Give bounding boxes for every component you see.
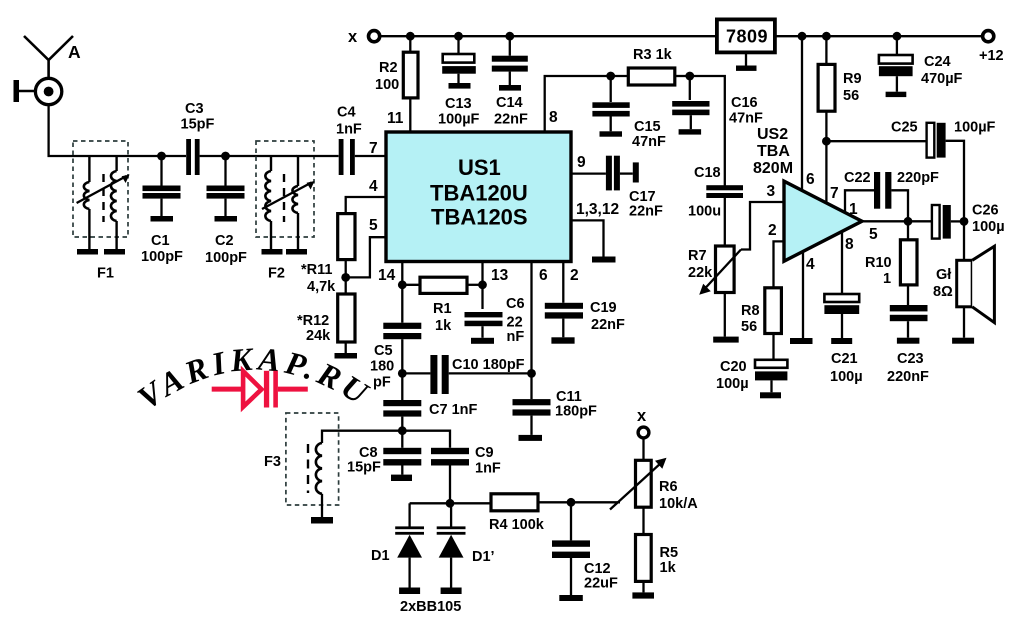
svg-text:+12: +12 [979,48,1004,64]
varicap diode D1 [395,503,424,587]
capacitor C7 [383,400,421,448]
svg-text:220nF: 220nF [887,369,929,385]
capacitor C26 (electrolytic, series) [932,205,964,239]
svg-text:TBA120S: TBA120S [431,205,528,230]
svg-text:US2: US2 [757,126,788,143]
filter F3 [286,413,402,517]
svg-text:C15: C15 [634,119,661,135]
svg-text:C16: C16 [731,95,758,111]
US2 pin 1 wire to C22 [845,190,874,212]
node pin6/C10 junction [527,369,536,378]
svg-text:470µF: 470µF [921,71,963,87]
ground C19 [551,337,574,343]
svg-text:C24: C24 [924,54,951,70]
wire antenna to input line [49,105,74,156]
speaker Gl [957,246,995,338]
svg-text:C13: C13 [445,96,472,112]
svg-text:56: 56 [843,88,859,104]
wire R12 to ground [345,342,347,353]
svg-text:8: 8 [549,109,558,126]
svg-text:R8: R8 [741,303,760,319]
svg-text:R7: R7 [688,248,707,264]
wire US1 pin 9 to C17 [571,172,606,174]
svg-text:R10: R10 [865,255,892,271]
capacitor C9 [431,448,469,504]
svg-text:D1’: D1’ [472,549,495,565]
svg-text:5: 5 [869,226,878,243]
resistor R4 [491,494,571,511]
wire US1 pin 8 up [545,76,611,132]
ground pins 1,3,12 [592,257,616,263]
svg-text:F3: F3 [264,454,281,470]
wire R4 node to R6 arrow [571,501,620,503]
svg-text:C10 180pF: C10 180pF [452,357,525,373]
capacitor C23 [890,305,928,338]
capacitor C24 (electrolytic) [879,36,913,91]
op-amp US1 TBA120U/TBA120S [386,132,571,262]
svg-text:15pF: 15pF [181,117,215,133]
svg-text:A: A [68,42,81,62]
node rail/pin6 junction [798,32,807,41]
wire input line to C3 [74,155,186,157]
svg-text:C14: C14 [496,95,523,111]
wire F2 to C4 [297,155,339,157]
capacitor C19 [545,303,583,338]
ground F2 right [286,249,307,255]
resistor R5 [636,535,652,593]
wire C7 node to C9 [402,431,450,448]
node R9/C25/pin7 junction [822,137,831,146]
svg-text:100µ: 100µ [972,219,1005,235]
watermark VARIKAP.RU text [131,341,377,417]
wire junction to C25 [826,140,927,142]
wire US2 output [862,220,931,222]
filter F2 [256,141,315,249]
svg-text:3: 3 [767,183,776,200]
wire C2 to F2 [226,155,298,157]
svg-text:100u: 100u [688,204,721,220]
svg-text:D1: D1 [371,548,390,564]
wire junction to US2 pin 7 [825,141,827,203]
antenna connector socket [14,78,62,104]
svg-text:C5: C5 [374,343,393,359]
capacitor C13 (electrolytic) [442,36,476,83]
svg-text:TBA: TBA [757,143,790,160]
svg-text:R3 1k: R3 1k [633,47,673,63]
resistor R11 [338,214,355,260]
svg-text:100µ: 100µ [716,376,749,392]
svg-text:100pF: 100pF [205,250,247,266]
svg-text:C26: C26 [972,203,999,219]
svg-text:C25: C25 [891,120,918,136]
svg-text:7: 7 [369,140,378,157]
svg-text:9: 9 [577,154,586,171]
US2 pin 2 wire to R8 [774,241,785,287]
capacitor C6 [465,312,503,338]
svg-text:C18: C18 [694,165,721,181]
potentiometer R7 [699,246,741,337]
svg-text:C3: C3 [185,101,204,117]
svg-text:Gł: Gł [936,267,951,283]
resistor R12 [338,294,355,342]
wire junction to speaker [963,221,965,260]
ground R5 [632,592,654,598]
capacitor C10 (series) [402,355,531,394]
capacitor C14 [492,36,528,85]
capacitor C12 [552,502,590,595]
svg-text:R2: R2 [379,60,398,76]
node C1 junction [157,152,166,161]
node C5/C10/C7 junction [398,369,407,378]
svg-text:15pF: 15pF [347,460,381,476]
wire R7 wiper to US2 pin 3 [741,202,784,250]
ground R12 [335,353,358,359]
svg-text:C23: C23 [897,351,924,367]
svg-text:*R12: *R12 [297,313,329,329]
capacitor C16 [672,76,709,129]
capacitor C4 (series) [339,139,386,175]
wire C9 to D1 node [410,502,491,504]
resistor R10 [900,221,917,305]
resistor R8 [765,288,782,360]
wire US1 pin 2 down [562,262,564,303]
svg-text:100µF: 100µF [954,120,996,136]
svg-text:100µ: 100µ [830,369,863,385]
svg-text:US1: US1 [458,155,501,180]
capacitor C5 [383,323,421,400]
svg-text:22nF: 22nF [591,317,625,333]
ground 7809 [736,66,757,71]
wire rail to US2 pin 6 [801,36,803,191]
svg-text:1: 1 [849,201,858,218]
ground C20 [760,392,781,398]
capacitor C21 (electrolytic) [824,294,859,338]
ground C13 [449,83,471,89]
wire US1 pins 1,3,12 to ground [571,220,604,256]
node rail/C24 junction [893,32,902,41]
potentiometer R6 [610,458,667,510]
svg-text:C2: C2 [215,233,234,249]
ground F3 [311,517,333,524]
capacitor C18 [706,185,743,246]
svg-text:F2: F2 [268,266,285,282]
svg-text:C20: C20 [720,359,747,375]
ground C21 [831,338,852,344]
ground C24 [886,92,907,97]
svg-text:24k: 24k [306,328,331,344]
svg-text:nF: nF [507,329,525,345]
ground C2 [215,216,238,222]
svg-text:4: 4 [806,256,815,273]
svg-text:2xBB105: 2xBB105 [400,599,461,615]
node R11/R12 junction [341,273,350,282]
node +12 terminal [983,31,994,42]
filter F1 [73,141,130,249]
ground C1 [151,216,174,222]
ground C8 [391,475,412,481]
svg-text:180pF: 180pF [555,404,597,420]
resistor R3 [611,68,690,85]
capacitor C11 [513,399,551,435]
ground C15 [600,131,623,136]
regulator 7809 [717,19,775,65]
svg-text:C1: C1 [151,233,170,249]
op-amp US2 triangle [784,181,862,261]
svg-text:C21: C21 [831,351,858,367]
svg-text:TBA120U: TBA120U [430,181,528,206]
svg-text:10k/A: 10k/A [659,496,698,512]
svg-text:2: 2 [768,222,777,239]
watermark varicap diode symbol (red) [212,371,308,408]
wire US1 pin 13 down [481,262,483,310]
node R3/C15 junction [606,72,615,81]
svg-text:C6: C6 [506,296,525,312]
ground speaker [952,338,974,344]
node pin14/R1 junction [398,280,407,289]
svg-text:C19: C19 [590,300,617,316]
capacitor C8 [383,448,421,475]
node rail/C14 junction [505,32,514,41]
ground C6 [471,338,494,344]
svg-text:4,7k: 4,7k [307,279,336,295]
svg-text:820M: 820M [753,160,793,177]
wire US1 pin 5 to R11/R12 node [346,237,386,277]
ground C14 [499,85,521,91]
US2 pin 4 wire to ground [802,252,804,339]
node C2 junction [221,152,230,161]
node C26/speaker junction [960,217,969,226]
wire US1 pin 6 down to C11 [530,262,532,400]
node C9/D1' junction [446,499,455,508]
ground F1 left [77,249,98,255]
svg-text:2: 2 [570,267,579,284]
wire US1 pin 14 down [401,262,403,323]
svg-text:11: 11 [387,110,404,127]
wire R6 to R5 [642,507,644,534]
svg-text:1nF: 1nF [336,122,362,138]
wire X terminal to R6 [642,438,644,460]
svg-text:6: 6 [806,171,815,188]
resistor R1 [402,277,482,293]
svg-text:1nF: 1nF [475,461,501,477]
svg-text:220pF: 220pF [897,170,939,186]
node rail/R2 junction [406,32,415,41]
svg-text:6: 6 [539,267,548,284]
node pin13/R1 junction [478,280,487,289]
svg-text:47nF: 47nF [632,134,666,150]
svg-text:22k: 22k [688,265,713,281]
ground C11 [519,435,543,441]
svg-text:*R11: *R11 [301,262,332,278]
svg-text:100µF: 100µF [438,112,480,128]
wire R11 to R12 [345,260,347,294]
node X tuning terminal [638,427,649,438]
svg-text:7809: 7809 [726,27,768,47]
svg-text:C7 1nF: C7 1nF [429,402,477,418]
svg-text:R4 100k: R4 100k [489,517,545,533]
svg-text:C22: C22 [844,170,871,186]
US2 pin 8 wire to C21 [841,232,843,295]
svg-text:R6: R6 [659,479,678,495]
node X supply terminal [369,31,380,42]
capacitor C25 (electrolytic, series) [927,123,964,222]
capacitor C20 (electrolytic) [755,360,787,393]
ground D1 [399,588,420,595]
ground R7 [713,337,739,343]
capacitor C15 [592,76,629,131]
ground F1 right [104,249,125,255]
wire supply rail right [775,35,982,37]
capacitor C17 [606,156,639,191]
ground F2 left [262,249,283,255]
capacitor C2 [207,156,245,216]
svg-text:5: 5 [369,217,378,234]
svg-text:4: 4 [369,178,378,195]
svg-text:22nF: 22nF [629,204,663,220]
svg-text:7: 7 [830,185,839,202]
svg-text:100: 100 [375,77,399,93]
ground C12 [559,595,583,601]
svg-text:x: x [348,28,358,46]
wire R3 node to C18 [690,76,725,186]
svg-text:8: 8 [845,236,854,253]
wire US1 pin 4 to R11 [346,197,386,214]
svg-text:56: 56 [741,319,757,335]
svg-text:1k: 1k [435,318,452,334]
capacitor C22 (series) [874,172,908,221]
ground US2 pin 4 [790,338,813,344]
svg-text:1k: 1k [660,560,677,576]
wire supply rail left [380,35,717,37]
svg-text:C4: C4 [337,105,356,121]
varicap diode D1' [437,503,466,587]
svg-text:13: 13 [491,267,509,284]
svg-text:R5: R5 [660,545,679,561]
svg-text:1: 1 [883,271,891,287]
capacitor C3 (series) [186,139,225,175]
svg-text:47nF: 47nF [729,111,763,127]
node C7/C8/C9/F3 junction [398,426,407,435]
svg-text:C9: C9 [475,445,494,461]
svg-text:R1: R1 [433,301,452,317]
svg-text:F1: F1 [97,266,114,282]
antenna A [24,36,73,80]
ground C23 [897,338,920,344]
resistor R2 [403,36,418,132]
capacitor C1 [143,156,181,216]
svg-text:180: 180 [370,359,394,375]
node R4/C12 junction [567,498,576,507]
node rail/R9 junction [822,32,831,41]
svg-text:x: x [637,407,647,425]
svg-text:22uF: 22uF [584,576,618,592]
node rail/C13 junction [454,32,463,41]
ground C16 [679,129,702,134]
resistor R9 [818,36,835,141]
svg-text:1,3,12: 1,3,12 [576,201,619,218]
svg-text:22nF: 22nF [494,112,528,128]
svg-text:8Ω: 8Ω [933,284,953,300]
node R3/C16 junction [685,72,694,81]
svg-text:14: 14 [378,267,396,284]
ground D1' [441,588,462,595]
svg-text:R9: R9 [843,71,862,87]
node output/R10 junction [904,217,913,226]
svg-text:100pF: 100pF [141,249,183,265]
